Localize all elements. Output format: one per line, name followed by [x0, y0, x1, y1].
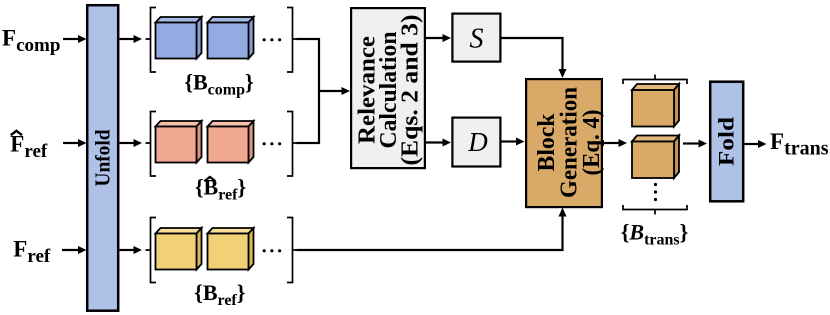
- svg-text:(Eqs. 2 and 3): (Eqs. 2 and 3): [398, 15, 424, 166]
- arrow Fold to F_trans: [745, 140, 767, 148]
- dots row2: [263, 142, 282, 145]
- bracket left row3: [146, 218, 157, 283]
- vertical dots stack: [654, 183, 657, 201]
- arrow F_comp to Unfold: [63, 35, 87, 43]
- block Block Generation: [526, 79, 605, 207]
- cube B_ref 1: [156, 228, 202, 270]
- cube B_hat_ref 2: [208, 121, 254, 163]
- bracket right row3: [287, 218, 298, 283]
- cube B_comp 2: [208, 17, 254, 59]
- arrow stack to Fold: [683, 140, 707, 148]
- svg-text:Fold: Fold: [714, 117, 739, 166]
- arrow Relevance to S: [426, 34, 451, 42]
- bracket right row1: [287, 8, 298, 73]
- svg-text:S: S: [470, 24, 484, 55]
- arrow Unfold to B_hat_ref blocks: [120, 139, 143, 147]
- bracket top of stack: [623, 75, 687, 85]
- bracket left row1: [146, 8, 157, 73]
- wire S to Block Generation: [502, 38, 563, 70]
- block Unfold: [87, 5, 118, 311]
- box D: [452, 118, 500, 167]
- cube B_trans 1: [632, 84, 679, 127]
- cube B_ref 2: [208, 228, 254, 270]
- arrow F_hat_ref to Unfold: [63, 139, 87, 147]
- wire merge rows 1-2 to Relevance: [297, 39, 320, 143]
- arrow D to Block Generation: [502, 138, 525, 146]
- wire B_ref row to Block Generation bottom: [297, 216, 563, 250]
- dots row1: [263, 38, 282, 41]
- label F_hat_ref: [10, 131, 48, 162]
- svg-text:D: D: [467, 127, 488, 157]
- arrow into Relevance: [319, 87, 350, 95]
- arrow F_ref to Unfold: [62, 246, 87, 254]
- bracket left row2: [146, 112, 157, 177]
- arrow Relevance to D: [426, 139, 451, 147]
- arrow Unfold to B_comp blocks: [120, 35, 143, 43]
- bracket right row2: [287, 112, 298, 177]
- label B_hat_ref set: [195, 174, 246, 203]
- cube B_comp 1: [156, 17, 202, 59]
- cube B_trans 2: [632, 136, 679, 179]
- dots row3: [263, 249, 282, 252]
- arrow Block Generation to B_trans stack: [603, 139, 627, 147]
- bracket bottom of stack: [623, 205, 687, 215]
- block Fold: [710, 82, 743, 202]
- svg-text:Unfold: Unfold: [91, 129, 115, 186]
- arrow Unfold to B_ref blocks: [120, 246, 143, 254]
- box S: [452, 14, 500, 62]
- cube B_hat_ref 1: [156, 121, 202, 163]
- svg-text:(Eq. 4): (Eq. 4): [579, 110, 605, 176]
- block Relevance Calculation: [351, 8, 425, 168]
